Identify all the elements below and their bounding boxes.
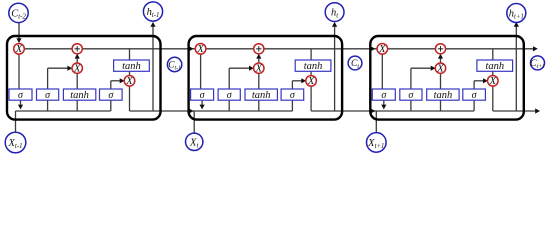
svg-text:tanh: tanh bbox=[70, 90, 89, 101]
svg-text:X: X bbox=[489, 76, 497, 87]
svg-text:X: X bbox=[436, 63, 444, 74]
svg-text:X: X bbox=[125, 76, 133, 87]
svg-text:tanh: tanh bbox=[485, 61, 504, 72]
svg-text:X: X bbox=[73, 63, 81, 74]
svg-text:tanh: tanh bbox=[252, 90, 271, 101]
svg-text:X: X bbox=[15, 44, 23, 55]
svg-text:tanh: tanh bbox=[434, 90, 453, 101]
svg-text:X: X bbox=[255, 63, 263, 74]
svg-text:X: X bbox=[307, 76, 315, 87]
svg-text:tanh: tanh bbox=[304, 61, 323, 72]
svg-text:tanh: tanh bbox=[122, 61, 141, 72]
svg-text:X: X bbox=[378, 44, 386, 55]
svg-text:X: X bbox=[196, 44, 204, 55]
